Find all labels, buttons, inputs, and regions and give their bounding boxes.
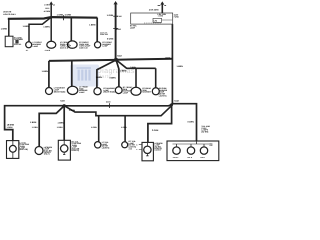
svg-text:1 BRN: 1 BRN [43, 25, 50, 28]
svg-text:MARKER: MARKER [142, 91, 151, 94]
svg-text:2 BRN: 2 BRN [120, 70, 127, 73]
svg-text:1 BRN: 1 BRN [30, 121, 37, 124]
svg-text:LAMP: LAMP [33, 45, 39, 48]
svg-text:(REAR SIDE): (REAR SIDE) [54, 91, 66, 94]
svg-text:LIGHTS ONLY: LIGHTS ONLY [3, 13, 16, 16]
svg-text:4 DK GRN: 4 DK GRN [149, 9, 159, 12]
svg-text:S416: S416 [116, 28, 122, 31]
svg-text:C150 B: C150 B [154, 149, 161, 152]
svg-text:LAMP: LAMP [102, 45, 108, 48]
svg-text:S417: S417 [117, 54, 123, 57]
svg-text:1 ORN: 1 ORN [44, 4, 50, 7]
svg-text:1 ORN: 1 ORN [7, 126, 13, 129]
svg-text:3 ORN: 3 ORN [107, 37, 114, 40]
svg-text:S409: S409 [60, 100, 64, 103]
svg-text:(EXC RR): (EXC RR) [20, 148, 29, 151]
svg-text:C203 A1: C203 A1 [14, 43, 21, 46]
svg-text:LIGHTS): LIGHTS) [159, 95, 167, 98]
svg-text:LIGHTS): LIGHTS) [72, 149, 80, 152]
svg-text:1 CRN: 1 CRN [158, 15, 164, 18]
svg-text:(W/ RR): (W/ RR) [201, 131, 208, 134]
svg-text:1 BRN: 1 BRN [177, 65, 184, 68]
svg-text:LAMP: LAMP [123, 92, 129, 95]
svg-text:ONLY): ONLY) [44, 153, 50, 156]
svg-text:LAMP: LAMP [79, 91, 85, 94]
svg-text:FUSE: FUSE [174, 16, 180, 19]
svg-text:2 ORN: 2 ORN [152, 129, 159, 132]
svg-text:1 BRN: 1 BRN [23, 25, 30, 28]
svg-text:LAMP: LAMP [130, 27, 136, 30]
svg-text:C150: C150 [106, 100, 111, 103]
svg-text:1 BRN: 1 BRN [69, 109, 76, 112]
svg-text:4 BRN: 4 BRN [165, 56, 171, 59]
svg-text:(REAR SIDE): (REAR SIDE) [103, 91, 115, 94]
svg-text:1 ORN: 1 ORN [32, 126, 38, 129]
svg-text:LIGHTS): LIGHTS) [102, 147, 110, 150]
svg-text:1 BRN: 1 BRN [1, 27, 8, 30]
svg-text:1 ORN: 1 ORN [57, 14, 64, 17]
svg-text:1 ORN: 1 ORN [121, 126, 127, 129]
svg-text:C100 A-B: C100 A-B [60, 47, 69, 50]
svg-text:1 BRN: 1 BRN [89, 24, 96, 27]
svg-text:S110: S110 [45, 7, 49, 10]
svg-text:S418: S418 [174, 100, 178, 103]
svg-text:C100: C100 [117, 15, 121, 18]
svg-text:1 ORN: 1 ORN [57, 126, 63, 129]
svg-text:1 BRN: 1 BRN [58, 121, 65, 124]
svg-text:3 ORN: 3 ORN [187, 120, 194, 123]
svg-text:C100 A-B: C100 A-B [79, 47, 88, 50]
svg-text:40 ORN: 40 ORN [44, 10, 51, 13]
svg-text:2 BRN: 2 BRN [130, 66, 136, 69]
svg-text:1 ORN: 1 ORN [91, 126, 97, 129]
svg-text:1 BRN: 1 BRN [42, 70, 49, 73]
svg-text:FLASHER: FLASHER [14, 38, 24, 41]
svg-text:3 BRN: 3 BRN [109, 77, 116, 80]
svg-text:1 ORN: 1 ORN [107, 14, 114, 17]
svg-text:4 ORN: 4 ORN [65, 14, 72, 17]
svg-text:1 BRN: 1 BRN [96, 76, 103, 79]
